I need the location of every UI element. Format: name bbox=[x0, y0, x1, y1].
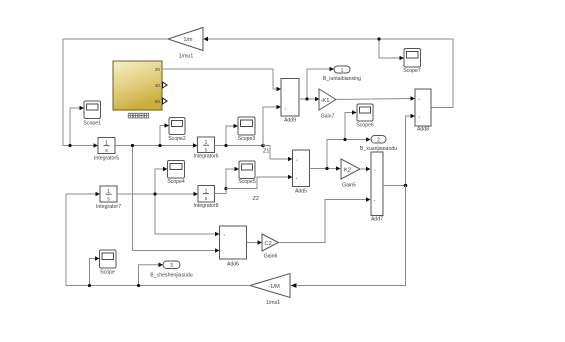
junction dot outport3 branch bbox=[137, 284, 140, 287]
junction dot Scope3 branch bbox=[224, 144, 227, 147]
svg-text:20: 20 bbox=[155, 67, 161, 72]
node Z1 bbox=[261, 144, 269, 155]
svg-text:Gain6: Gain6 bbox=[264, 254, 278, 260]
wire: branch up to outport 2 bbox=[327, 137, 371, 168]
svg-text:Scope: Scope bbox=[100, 270, 115, 276]
svg-text:1/m: 1/m bbox=[184, 37, 193, 43]
junction dot Scope5 branch bbox=[224, 187, 227, 190]
sum Add9 bbox=[281, 79, 299, 124]
scope Scope bbox=[100, 250, 117, 276]
junction dot Add7 output bbox=[404, 184, 408, 188]
gain 1/mu1 (triangle pointing left) bbox=[168, 28, 208, 60]
svg-text:Z2: Z2 bbox=[253, 196, 259, 202]
wire: branch up to Scope6 bbox=[345, 110, 357, 139]
scope Scope4 bbox=[167, 161, 185, 186]
wire: branch from top wire down to Scope7 bbox=[379, 39, 404, 60]
svg-text:Scope6: Scope6 bbox=[356, 123, 374, 129]
wire: branch down from Integrator5 output to Add6 input 2 bbox=[133, 146, 220, 253]
svg-text:Integrator8: Integrator8 bbox=[193, 203, 218, 209]
svg-text:s: s bbox=[107, 196, 110, 202]
svg-text:Integrator6: Integrator6 bbox=[193, 154, 218, 160]
wire: branch up to Scope2 bbox=[160, 123, 169, 145]
wire: junction down and left to 1/ms1 gain bbox=[297, 186, 406, 286]
wire: branch up to Scope3 bbox=[226, 124, 238, 146]
integrator Integrator6 bbox=[193, 137, 218, 160]
svg-text:s: s bbox=[105, 148, 108, 154]
junction dot Scope4/Add6 branch bbox=[153, 192, 156, 195]
wire: Integrator6 output to node Z1 bbox=[215, 145, 264, 147]
svg-text:3: 3 bbox=[170, 263, 173, 269]
wire: Add7 output up to Add8 input 2 bbox=[406, 114, 416, 186]
wire: Gain6 output to Add7 input 2 bbox=[279, 197, 371, 242]
sum Add7 bbox=[371, 152, 383, 223]
wire: Integrator7 output to Integrator8 bbox=[117, 192, 198, 197]
scope Scope2 bbox=[168, 118, 186, 143]
svg-text:B_cheshenjiasudu: B_cheshenjiasudu bbox=[150, 273, 193, 279]
wire: Gain7 output to Add8 input 1 bbox=[336, 96, 415, 101]
junction dot Add6 branch bbox=[131, 144, 134, 147]
wire: Add6 output to Gain6 bbox=[247, 240, 263, 245]
svg-text:Scope2: Scope2 bbox=[168, 136, 186, 142]
wire: Integrator8 output jog up to node bbox=[215, 189, 227, 194]
node Z2 label bbox=[253, 196, 259, 202]
scope Scope3 bbox=[238, 117, 256, 142]
integrator Integrator5 bbox=[94, 138, 119, 162]
scope Scope7 bbox=[403, 49, 421, 75]
scope Scope5 bbox=[238, 161, 256, 185]
wire: Z1 down to Add5 input 1 bbox=[263, 146, 293, 162]
svg-text:1/ms1: 1/ms1 bbox=[266, 300, 280, 306]
svg-text:s: s bbox=[205, 196, 208, 202]
svg-text:Integrator7: Integrator7 bbox=[96, 204, 121, 210]
svg-text:s: s bbox=[205, 147, 208, 153]
svg-text:Gain5: Gain5 bbox=[342, 183, 356, 189]
wire: subsystem port 20 to Add9 input 1 bbox=[162, 69, 281, 91]
svg-text:60: 60 bbox=[155, 99, 161, 104]
wire: Add8 output up and across top to 1/mu1 bbox=[208, 39, 453, 108]
svg-text:K2: K2 bbox=[344, 168, 351, 174]
svg-text:1/mu1: 1/mu1 bbox=[179, 54, 194, 60]
scope Scope6 bbox=[356, 104, 374, 129]
wire: Z1 up to Add9 input 2 bbox=[263, 105, 281, 146]
junction dot Scope1 branch bbox=[68, 144, 71, 147]
svg-text:Scope5: Scope5 bbox=[238, 179, 256, 185]
wire: 1/mu1 output left and down to Integrator5 bbox=[63, 39, 168, 148]
wire: branch up to outport 1 bbox=[307, 67, 334, 99]
svg-text:Z1: Z1 bbox=[263, 149, 269, 155]
svg-text:Add9: Add9 bbox=[284, 118, 296, 124]
junction dot Scope2 branch bbox=[158, 144, 161, 147]
svg-text:40: 40 bbox=[155, 83, 161, 88]
wire: Add7 output to junction bbox=[383, 185, 406, 187]
svg-text:Add6: Add6 bbox=[227, 262, 239, 268]
wire: branch up to outport 3 bbox=[139, 263, 164, 286]
svg-text:Gain7: Gain7 bbox=[321, 114, 335, 120]
junction dot Scope6 branch bbox=[343, 138, 346, 141]
svg-text:Add7: Add7 bbox=[371, 217, 383, 223]
svg-text:-K1: -K1 bbox=[321, 98, 330, 104]
svg-text:Scope7: Scope7 bbox=[403, 68, 421, 74]
wire: branch up to Scope5 bbox=[226, 167, 239, 189]
svg-text:Integrator5: Integrator5 bbox=[94, 156, 119, 162]
wire: Add5 output to Gain5 bbox=[310, 166, 341, 171]
wire: 1/ms1 output left and up to Integrator7 bbox=[66, 192, 250, 286]
svg-text:2: 2 bbox=[377, 138, 380, 144]
sum Add6 bbox=[220, 226, 247, 268]
svg-text:Scope3: Scope3 bbox=[238, 136, 256, 142]
integrator Integrator8 bbox=[193, 186, 218, 210]
svg-text:Add5: Add5 bbox=[295, 189, 307, 195]
wire: Integrator5 output to Integrator6 bbox=[115, 143, 198, 148]
svg-text:C2: C2 bbox=[265, 241, 272, 247]
svg-text:-1/M: -1/M bbox=[268, 284, 280, 290]
gain Gain5 bbox=[341, 159, 360, 189]
sum Add8 bbox=[415, 89, 431, 133]
svg-text:Scope1: Scope1 bbox=[83, 121, 101, 127]
gain Gain6 bbox=[262, 234, 279, 260]
svg-text:Add8: Add8 bbox=[417, 127, 429, 133]
wire: node Z2 to Add5 input 2 bbox=[226, 175, 293, 189]
wire: branch up to Scope bbox=[90, 256, 100, 285]
junction dot Add5 output branch bbox=[325, 167, 328, 170]
junction dot on top wire bbox=[377, 37, 380, 40]
gain 1/ms1 (-1/M big triangle pointing left) bbox=[250, 274, 297, 307]
wire: Gain5 output to Add7 input 1 bbox=[360, 167, 371, 172]
junction dot Scope branch bbox=[88, 284, 91, 287]
outport 2 B_xuanjianaodu bbox=[360, 136, 397, 152]
junction dot outport1 branch bbox=[305, 97, 308, 100]
outport 1 B_luntaibianxing bbox=[323, 66, 361, 82]
scope Scope1 bbox=[83, 101, 101, 127]
subsystem 路面模型 (yellow) bbox=[113, 61, 167, 118]
sum Add5 bbox=[293, 150, 310, 195]
gain Gain7 bbox=[319, 89, 336, 120]
svg-text:Scope4: Scope4 bbox=[167, 179, 185, 185]
svg-text:1: 1 bbox=[341, 68, 344, 74]
outport 3 B_cheshenjiasudu bbox=[150, 261, 193, 279]
svg-text:B_xuanjianaodu: B_xuanjianaodu bbox=[360, 146, 397, 152]
wire: branch down to Add6 input 1 bbox=[155, 194, 220, 236]
wire: branch up to Scope1 bbox=[70, 106, 84, 146]
integrator Integrator7 bbox=[96, 186, 121, 210]
wire: branch up to Scope4 bbox=[155, 167, 168, 194]
wire: Add9 output to Gain7 bbox=[299, 97, 320, 102]
svg-text:B_luntaibianxing: B_luntaibianxing bbox=[323, 76, 361, 82]
